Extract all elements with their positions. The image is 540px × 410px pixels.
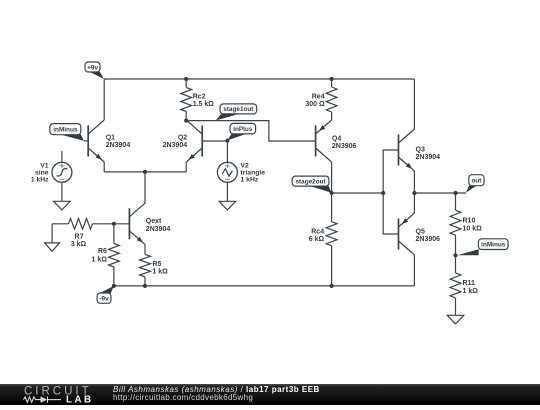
svg-text:1 kHz: 1 kHz [31, 176, 49, 183]
flag -9v [97, 286, 114, 303]
transistor Q2 [186, 120, 202, 162]
wire Q3 emitter [413, 171, 415, 193]
node +9v rail to Rc2 [184, 77, 188, 81]
svg-text:2N3904: 2N3904 [163, 142, 188, 149]
flag out [466, 175, 484, 193]
label Rc4 [309, 229, 325, 243]
node out junction [453, 191, 457, 195]
node bases junction [381, 191, 385, 195]
wire -9v rail [114, 285, 415, 287]
flag inMinus left [50, 124, 88, 141]
flag +9v [85, 62, 104, 79]
wire stage2out [332, 192, 384, 194]
svg-text:Q4: Q4 [332, 136, 341, 143]
svg-text:out: out [471, 178, 482, 185]
source V1 sine [52, 162, 72, 182]
label R10 [463, 218, 483, 233]
svg-text:triangle: triangle [241, 169, 266, 176]
source V2 triangle [217, 162, 237, 182]
svg-text:-9v: -9v [99, 295, 109, 302]
wire tail down to Qext [144, 172, 146, 203]
svg-text:R10: R10 [463, 218, 476, 225]
wire stage1out to Q4 [186, 121, 315, 141]
wire out [414, 192, 466, 194]
node stage1out junction [184, 119, 188, 123]
wire Q3 collector [413, 79, 415, 129]
svg-text:300 Ω: 300 Ω [305, 101, 325, 108]
node emitters junction [412, 191, 416, 195]
transistor Q4 [316, 120, 332, 162]
wire Q5 emitter [413, 193, 415, 213]
ground under V1 [54, 201, 71, 210]
wire +9v to Q1 collector [103, 79, 105, 120]
transistor Q5 [399, 213, 415, 255]
wire +9v rail [104, 78, 414, 80]
svg-text:R5: R5 [152, 261, 161, 268]
transistor Q3 [399, 129, 415, 171]
ground under V2 [219, 201, 236, 210]
svg-text:R7: R7 [75, 233, 84, 240]
svg-text:V2: V2 [241, 162, 250, 169]
label Q2 [163, 135, 188, 149]
wire V1 bottom [61, 182, 63, 201]
wire V2 bottom [226, 182, 228, 201]
footer bar [0, 384, 540, 405]
svg-text:inMinus: inMinus [53, 126, 78, 133]
svg-text:2N3904: 2N3904 [146, 226, 171, 233]
svg-text:+9v: +9v [87, 64, 98, 71]
svg-text:Q3: Q3 [416, 147, 425, 154]
svg-text:1 kΩ: 1 kΩ [92, 256, 108, 263]
node Rc4 bottom [330, 284, 334, 288]
svg-text:R6: R6 [98, 248, 107, 255]
flag inPlus [227, 123, 255, 140]
node R6 bottom [112, 284, 116, 288]
node inMinus junction [453, 253, 457, 257]
resistor R5 [140, 245, 151, 286]
svg-text:inMinus: inMinus [481, 241, 506, 248]
flag stage2out [292, 176, 331, 193]
svg-text:Q5: Q5 [416, 228, 425, 235]
ground left of R7 [45, 224, 60, 252]
svg-text:stage2out: stage2out [295, 178, 326, 185]
svg-text:6 kΩ: 6 kΩ [309, 236, 325, 243]
label Q5 [416, 228, 441, 242]
svg-text:LAB: LAB [66, 395, 94, 405]
flag stage1out [216, 104, 257, 121]
wire Q4 collector down [331, 162, 333, 193]
svg-text:2N3904: 2N3904 [416, 154, 441, 161]
wire V1 top stub [61, 151, 63, 162]
node R7 R6 Qext junction [112, 222, 116, 226]
resistor Re4 [326, 79, 337, 120]
resistor Rc2 [181, 79, 192, 121]
resistor R6 [109, 224, 120, 286]
wire Q2 collector [185, 119, 187, 122]
node tail junction [143, 170, 147, 174]
svg-text:2N3906: 2N3906 [416, 236, 441, 243]
wire Q1 emitter [103, 162, 105, 172]
svg-text:Re4: Re4 [312, 93, 325, 100]
svg-text:Rc4: Rc4 [311, 229, 324, 236]
CircuitLab logo [0, 384, 110, 405]
ground under R11 [447, 315, 464, 324]
node stage2out junction [330, 191, 334, 195]
label V2 [241, 162, 266, 183]
svg-text:Rc2: Rc2 [193, 93, 206, 100]
wire emitter tail [104, 171, 186, 173]
label R6 [92, 248, 108, 263]
wire Q5 collector down [413, 255, 415, 286]
svg-text:inPlus: inPlus [233, 126, 253, 133]
node R5 bottom [143, 284, 147, 288]
label Q1 [106, 135, 131, 149]
node +9v rail to Re4 [330, 77, 334, 81]
svg-text:1 kHz: 1 kHz [241, 176, 259, 183]
svg-text:2N3906: 2N3906 [332, 143, 357, 150]
svg-text:1.5 kΩ: 1.5 kΩ [193, 101, 215, 108]
label Re4 [305, 93, 325, 108]
svg-text:Q1: Q1 [106, 135, 115, 142]
wire Q2 emitter [185, 162, 187, 172]
resistor R10 [450, 193, 461, 255]
svg-text:2N3904: 2N3904 [106, 142, 131, 149]
label R5 [152, 261, 168, 276]
label R11 [463, 280, 479, 295]
svg-text:1 kΩ: 1 kΩ [152, 268, 168, 275]
node inPlus junction [225, 139, 229, 143]
label V1 [31, 162, 49, 183]
svg-text:sine: sine [35, 169, 49, 176]
svg-text:stage1out: stage1out [223, 106, 254, 113]
svg-text:10 kΩ: 10 kΩ [463, 225, 483, 232]
svg-text:1 kΩ: 1 kΩ [463, 288, 479, 295]
label R7 [71, 233, 87, 248]
resistor Rc4 [326, 193, 337, 286]
flag inMinus right [458, 239, 509, 255]
svg-text:R11: R11 [463, 280, 476, 287]
wire Q2 base [202, 140, 227, 142]
label Qext [146, 218, 171, 233]
transistor Qext [129, 203, 145, 245]
svg-text:V1: V1 [40, 162, 49, 169]
resistor R7 [52, 218, 129, 229]
wire bases [383, 150, 398, 234]
svg-text:3 kΩ: 3 kΩ [71, 241, 87, 248]
label Rc2 value [193, 93, 215, 108]
transistor Q1 [88, 120, 104, 162]
wire V2 top stub [226, 141, 228, 162]
resistor R11 [450, 255, 461, 315]
svg-text:Q2: Q2 [178, 135, 187, 142]
label Q3 [416, 147, 441, 161]
label Q4 [332, 136, 357, 150]
svg-text:Qext: Qext [146, 218, 162, 225]
